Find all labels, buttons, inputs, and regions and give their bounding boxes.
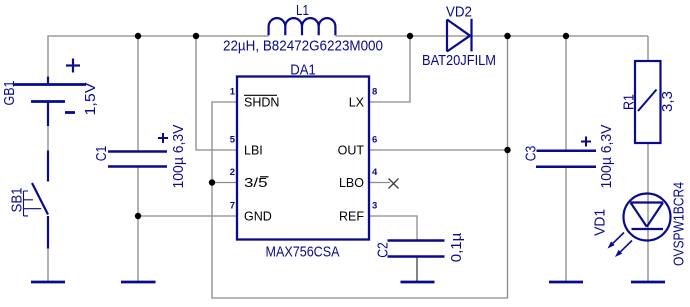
ground LED branch bbox=[631, 281, 665, 284]
switch SB1 bbox=[24, 151, 49, 249]
svg-text:3/5: 3/5 bbox=[244, 176, 268, 190]
node junction OUT pin bbox=[504, 147, 510, 153]
svg-text:C1: C1 bbox=[93, 146, 110, 162]
svg-text:MAX756CSA: MAX756CSA bbox=[266, 244, 340, 261]
wire LBI branch bbox=[196, 36, 237, 150]
svg-text:LBI: LBI bbox=[244, 143, 263, 157]
svg-text:GB1: GB1 bbox=[1, 81, 18, 106]
svg-text:OVSPW1BCR4: OVSPW1BCR4 bbox=[670, 182, 687, 266]
svg-text:2: 2 bbox=[230, 167, 235, 178]
no-connect X on LBO bbox=[389, 179, 399, 189]
svg-text:7: 7 bbox=[230, 201, 235, 212]
svg-text:100µ 6,3V: 100µ 6,3V bbox=[170, 125, 187, 189]
svg-text:LBO: LBO bbox=[339, 176, 364, 190]
svg-text:DA1: DA1 bbox=[290, 62, 316, 79]
svg-text:100µ 6,3V: 100µ 6,3V bbox=[598, 125, 615, 189]
svg-text:8: 8 bbox=[372, 87, 377, 98]
svg-text:C2: C2 bbox=[374, 242, 391, 258]
LED arrows bbox=[608, 233, 633, 258]
svg-text:OUT: OUT bbox=[338, 143, 365, 157]
svg-text:REF: REF bbox=[339, 209, 364, 223]
IC DA1 MAX756CSA bbox=[237, 77, 369, 240]
svg-text:C3: C3 bbox=[522, 146, 539, 162]
wire LBO stub bbox=[369, 182, 390, 184]
wire REF to C2 bbox=[369, 216, 417, 240]
node junction LX bbox=[407, 33, 413, 39]
capacitor C2 bbox=[388, 241, 445, 257]
battery GB1 bbox=[14, 59, 86, 127]
wire GND stub bbox=[138, 215, 237, 217]
svg-text:4: 4 bbox=[372, 167, 378, 178]
svg-text:SHDN: SHDN bbox=[244, 95, 279, 109]
svg-text:1: 1 bbox=[230, 87, 236, 98]
wire C3 bottom lead to ground bbox=[565, 168, 567, 282]
svg-text:0,1µ: 0,1µ bbox=[448, 232, 465, 262]
wire SHDN stub and vertical to bottom loop bbox=[212, 36, 508, 298]
node junction 3/5 bbox=[209, 179, 215, 185]
node junction LBI bbox=[193, 33, 199, 39]
inductor L1 bbox=[269, 18, 336, 35]
svg-text:BAT20JFILM: BAT20JFILM bbox=[422, 52, 496, 69]
wire C1 bottom lead to ground bbox=[137, 168, 139, 282]
wire battery minus to switch bbox=[47, 126, 49, 151]
resistor R1 bbox=[635, 61, 661, 143]
node junction L1-C1 bbox=[135, 33, 141, 39]
wire top bus from battery to R1 bbox=[48, 36, 269, 77]
ground C1 branch bbox=[121, 281, 156, 284]
svg-text:VD1: VD1 bbox=[591, 209, 608, 236]
svg-text:SB1: SB1 bbox=[8, 188, 25, 213]
svg-text:R1: R1 bbox=[620, 94, 637, 110]
ground C2 branch bbox=[401, 281, 435, 284]
capacitor C3 bbox=[536, 137, 596, 167]
LED VD1 bbox=[624, 194, 671, 241]
capacitor C1 bbox=[108, 133, 168, 167]
wire C2 bottom lead dark bbox=[416, 257, 418, 281]
svg-text:5: 5 bbox=[230, 135, 236, 146]
svg-text:GND: GND bbox=[244, 209, 272, 223]
svg-text:LX: LX bbox=[349, 95, 365, 109]
wire R1 to LED to ground bbox=[647, 143, 649, 281]
node junction C3 bbox=[563, 33, 569, 39]
node junction OUT top bbox=[504, 33, 510, 39]
diode VD2 bbox=[447, 19, 472, 52]
svg-text:3,3: 3,3 bbox=[659, 91, 676, 112]
wire C3 top lead bbox=[565, 36, 567, 151]
ground battery branch bbox=[31, 281, 65, 284]
svg-text:L1: L1 bbox=[296, 2, 309, 19]
wire switch to ground bbox=[47, 249, 49, 282]
wire OUT stub bbox=[369, 149, 508, 151]
svg-text:3: 3 bbox=[372, 201, 377, 212]
svg-text:1,5V: 1,5V bbox=[82, 83, 99, 116]
wire LX branch bbox=[369, 36, 410, 102]
svg-text:6: 6 bbox=[372, 135, 377, 146]
wire 3/5 stub bbox=[212, 182, 237, 184]
wire C1 top lead bbox=[137, 36, 139, 151]
node junction GND-C1 bbox=[135, 213, 141, 219]
ground C3 branch bbox=[549, 281, 583, 284]
svg-text:22µH, B82472G6223M000: 22µH, B82472G6223M000 bbox=[223, 38, 383, 55]
svg-text:VD2: VD2 bbox=[446, 4, 472, 21]
